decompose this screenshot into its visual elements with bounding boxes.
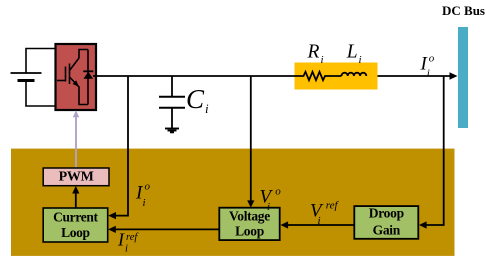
svg-text:o: o xyxy=(145,181,151,193)
svg-text:I: I xyxy=(117,230,125,250)
svg-text:PWM: PWM xyxy=(59,170,94,185)
svg-text:R: R xyxy=(307,41,320,62)
svg-text:DC Bus: DC Bus xyxy=(442,3,485,18)
svg-text:o: o xyxy=(429,52,435,64)
svg-text:i: i xyxy=(318,215,321,227)
svg-text:Droop: Droop xyxy=(369,206,404,221)
svg-text:i: i xyxy=(205,101,209,116)
svg-text:Loop: Loop xyxy=(61,225,90,240)
svg-text:Loop: Loop xyxy=(235,223,264,238)
svg-text:L: L xyxy=(346,41,358,62)
svg-text:Current: Current xyxy=(53,210,98,225)
svg-text:i: i xyxy=(125,244,128,255)
svg-text:i: i xyxy=(359,54,362,66)
svg-text:i: i xyxy=(267,201,270,213)
svg-text:ref: ref xyxy=(326,200,340,212)
svg-text:Gain: Gain xyxy=(373,222,401,237)
svg-text:o: o xyxy=(275,186,281,198)
svg-text:i: i xyxy=(427,67,430,79)
svg-text:i: i xyxy=(143,197,146,209)
svg-text:Voltage: Voltage xyxy=(229,209,270,224)
svg-text:C: C xyxy=(186,84,205,114)
svg-text:i: i xyxy=(321,54,324,66)
